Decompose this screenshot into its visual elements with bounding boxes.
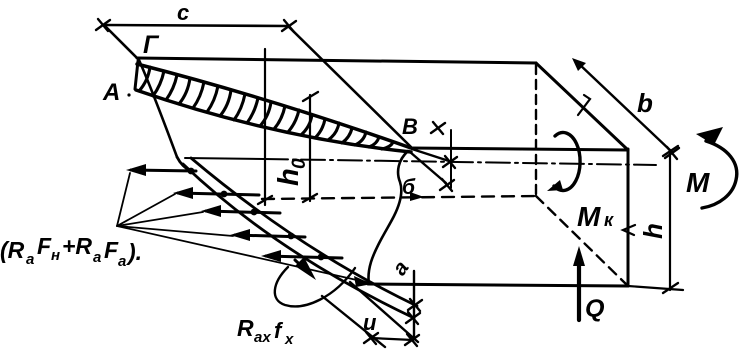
svg-text:).: ).	[125, 239, 142, 265]
label Raxfx	[237, 315, 294, 348]
leader fan line to bottom corner	[117, 226, 370, 283]
arrowhead of Q	[573, 246, 585, 266]
h0 dimension line left	[264, 49, 266, 205]
extension line from corner G to left cross, continuing as steep crack edge on left face	[104, 25, 177, 157]
arrowhead of Mk ellipse	[547, 180, 563, 191]
hidden back-bottom edge (dashed)	[262, 196, 536, 199]
svg-text:В: В	[402, 114, 418, 139]
dash-dot centerline of beam	[185, 158, 264, 159]
front right vertical edge	[627, 149, 630, 286]
dimension line b	[578, 63, 672, 152]
svg-text:F: F	[104, 237, 119, 263]
svg-text:к: к	[604, 210, 614, 230]
svg-text:f: f	[274, 318, 284, 343]
svg-text:а: а	[26, 251, 34, 268]
front top edge	[410, 148, 628, 150]
svg-text:н: н	[51, 247, 60, 264]
crack edge on front face lower	[410, 152, 446, 183]
oblique tick top of h line	[663, 146, 678, 156]
arrowhead of M arc	[696, 127, 723, 145]
cross at right end of c	[282, 20, 296, 32]
svg-text:а: а	[118, 253, 126, 270]
svg-text:А: А	[102, 79, 120, 106]
svg-text:+R: +R	[62, 233, 92, 259]
lower crack line to right spacing cross	[350, 282, 418, 342]
top face right edge	[536, 63, 628, 150]
label h (rotated)	[638, 223, 668, 239]
svg-text:F: F	[37, 233, 52, 259]
dimension line h	[669, 150, 671, 290]
force arrow row 1	[131, 170, 196, 171]
svg-text:М: М	[577, 201, 601, 232]
hidden bottom edge of right end face (dashed)	[536, 196, 627, 285]
cross left end of u	[364, 332, 378, 344]
svg-text:b: b	[637, 88, 653, 118]
tick on stirrup line lower	[406, 312, 420, 324]
arrowhead at corner of bottom face	[354, 276, 372, 287]
break mark on b line	[578, 95, 590, 115]
leader fan line to arrow 3	[117, 212, 203, 226]
hatched compression band: top edge	[137, 64, 411, 148]
leader curve of Raxfx	[275, 267, 355, 306]
label Mk	[577, 201, 614, 232]
force arrow row 5	[266, 256, 342, 258]
oblique tick top of right h0 line	[303, 92, 318, 101]
crack band on bottom face: lower line	[183, 164, 414, 318]
hidden back-right vertical edge (dashed)	[535, 65, 537, 196]
svg-text:Г: Г	[143, 31, 160, 59]
svg-text:h: h	[638, 223, 668, 239]
svg-text:h: h	[273, 168, 305, 186]
leader fan line to arrow 2	[117, 194, 175, 226]
oblique tick bottom of right h0 line	[303, 194, 317, 202]
arrowhead top of b line	[572, 58, 586, 71]
break mark on front right edge	[623, 225, 635, 235]
leader fan line to arrow 1	[117, 173, 130, 226]
bottom extension line for h dimension	[628, 286, 683, 290]
svg-text:а: а	[388, 257, 414, 280]
svg-text:М: М	[686, 167, 710, 198]
torque ellipse arrow Mk	[554, 133, 580, 191]
top back edge of beam	[137, 58, 536, 63]
cross at left end of c	[96, 19, 110, 31]
svg-text:(R: (R	[0, 237, 25, 263]
stirrup force arrow along crack	[295, 260, 310, 274]
svg-text:c: c	[177, 0, 189, 25]
tick on front face crack lower	[440, 179, 454, 191]
force arrow row 3	[206, 211, 280, 213]
tick on stirrup line upper	[408, 299, 422, 311]
cross right end of u	[405, 334, 419, 346]
force arrow row 4	[235, 235, 305, 237]
svg-text:х: х	[284, 331, 294, 348]
svg-text:Q: Q	[585, 295, 605, 323]
dot after A	[127, 93, 130, 96]
hatching strokes of compression band	[139, 67, 393, 149]
oblique tick bottom of left h0 line	[258, 196, 272, 204]
short vertical reference line at front face crack	[450, 130, 452, 188]
arrowhead on hidden bottom edge	[410, 192, 424, 201]
shear force arrow Q	[577, 259, 581, 320]
hatched compression band: left end cap	[135, 61, 138, 89]
h0 dimension line right	[309, 95, 311, 201]
external moment arc M	[702, 141, 737, 208]
svg-text:R: R	[237, 315, 254, 341]
lower crack line to left spacing cross	[322, 296, 385, 347]
dimension line c	[104, 25, 289, 26]
hatched compression band: bottom edge	[136, 90, 411, 152]
extension line from point V to right cross	[289, 27, 411, 147]
leader fan line to arrow 4	[117, 226, 233, 236]
stirrup spacing vertical line a	[413, 271, 415, 339]
svg-text:ах: ах	[254, 329, 271, 346]
tick on front face crack upper	[443, 156, 457, 168]
front bottom edge	[368, 284, 628, 286]
cross right of V	[431, 122, 445, 134]
crack band on bottom face: upper line	[191, 158, 417, 306]
oblique tick bottom of h line	[663, 283, 678, 293]
force arrow row 2	[178, 193, 259, 195]
bend joining left face crack to bottom band	[177, 157, 192, 172]
label h0 (rotated)	[273, 158, 310, 186]
svg-text:б: б	[402, 176, 416, 199]
wavy break line of front face	[368, 151, 408, 284]
label (RaFn+RaFa).	[0, 233, 142, 270]
tick at bottom of b line	[665, 147, 679, 159]
spacing dimension line u	[371, 338, 413, 340]
crack edge on front face upper	[412, 149, 449, 161]
svg-text:а: а	[93, 249, 101, 266]
